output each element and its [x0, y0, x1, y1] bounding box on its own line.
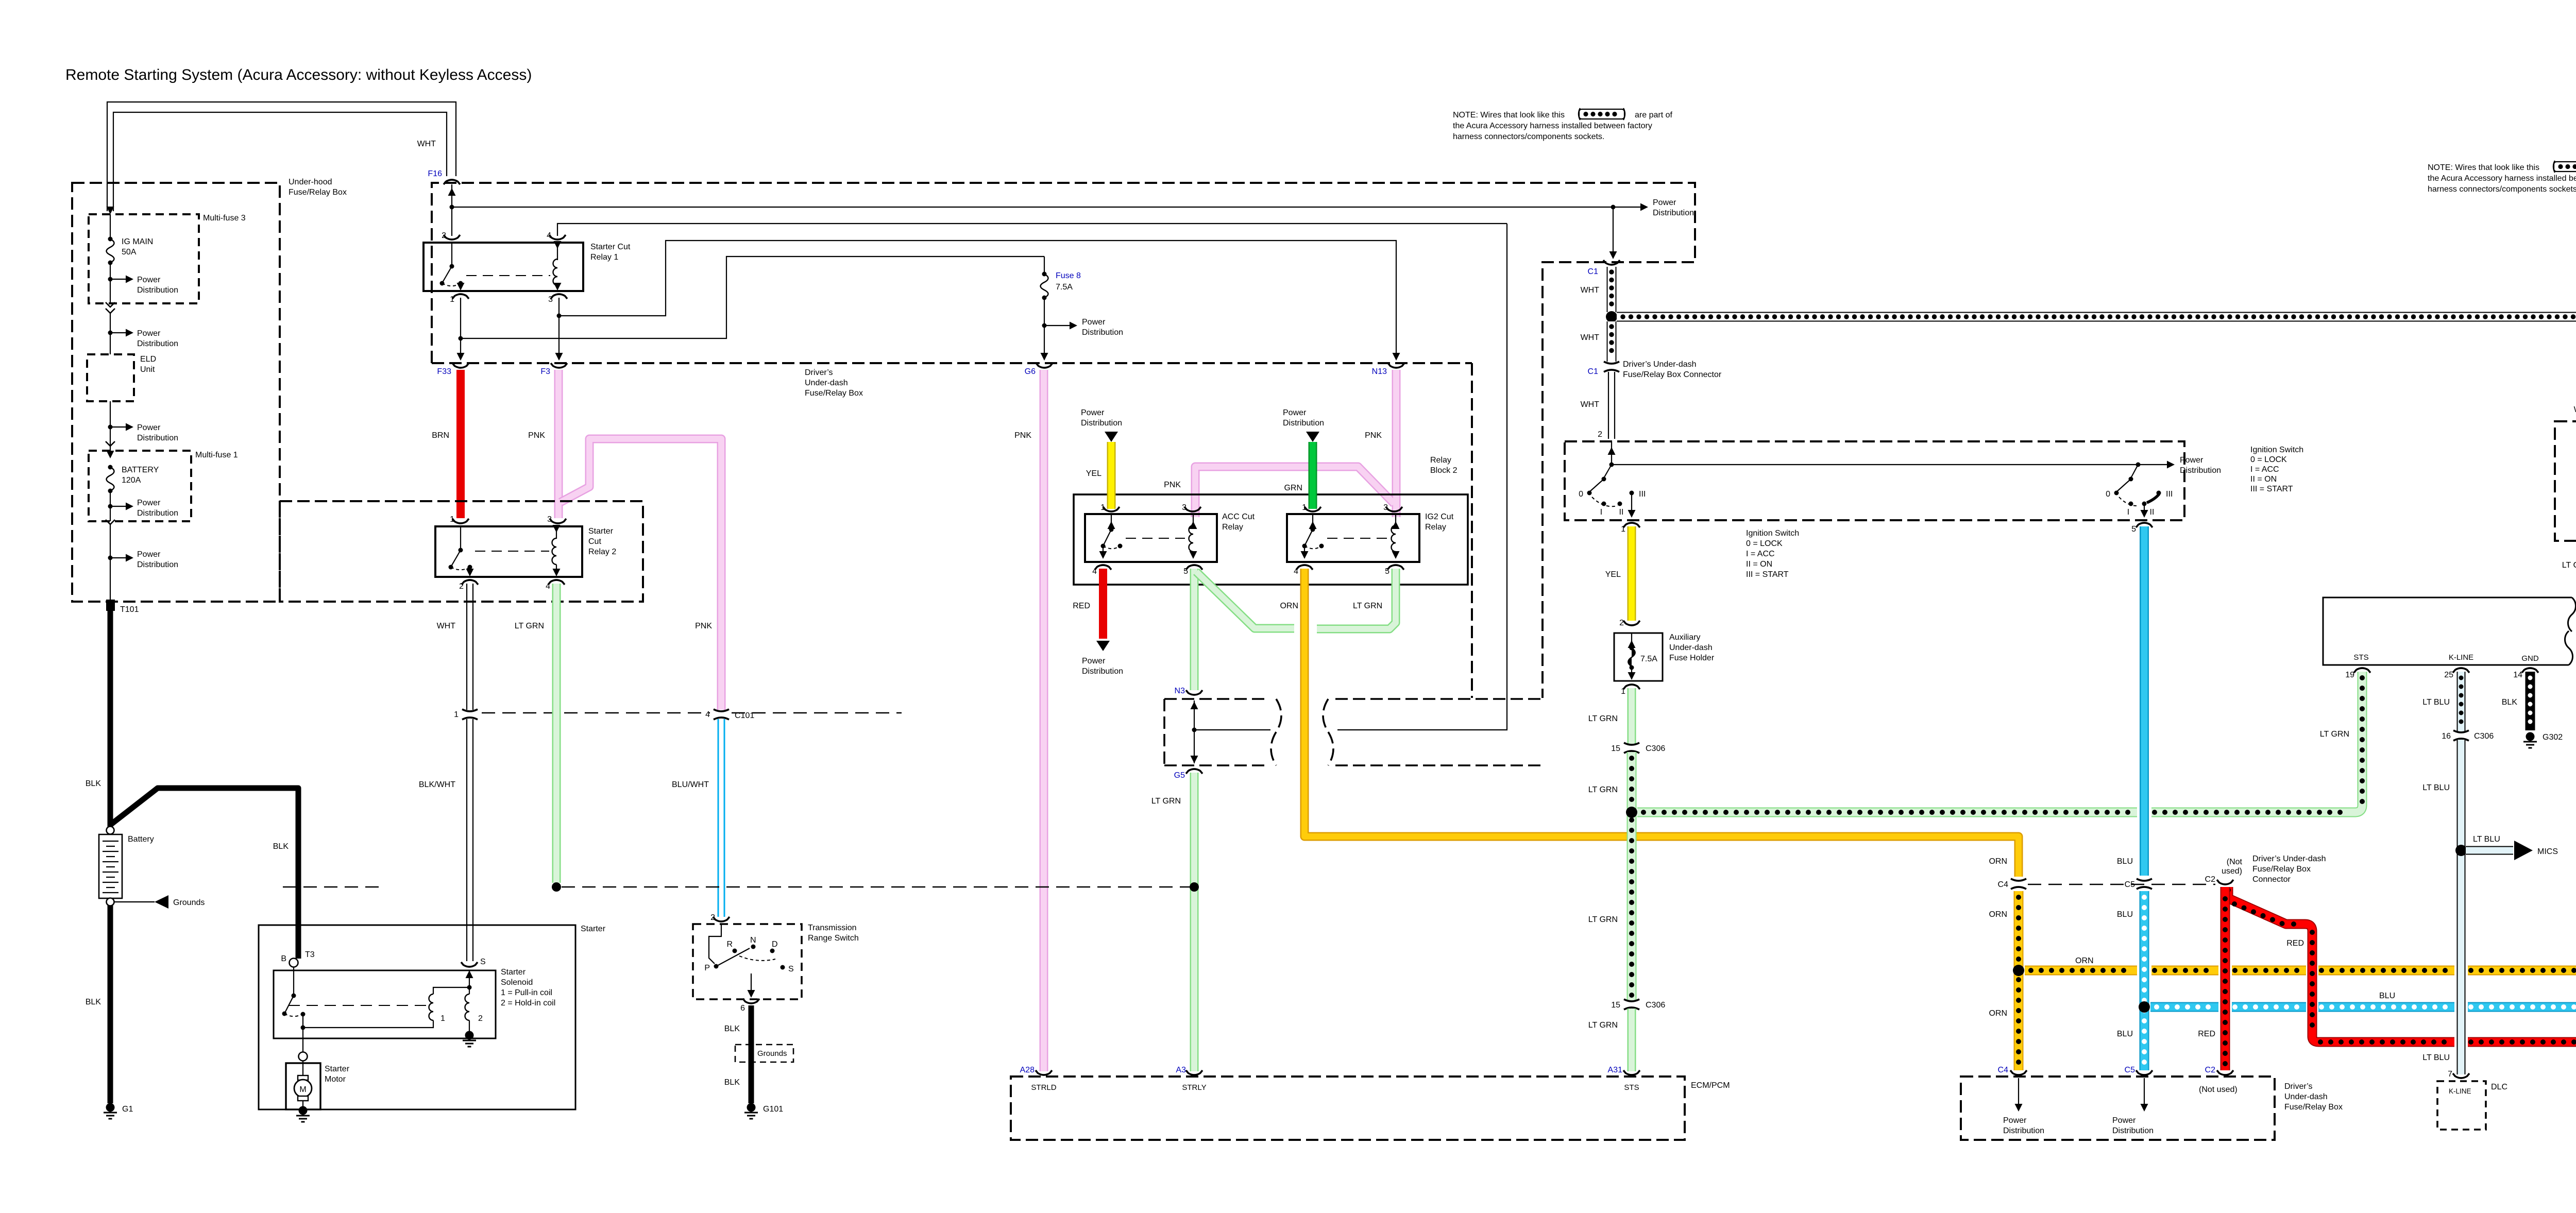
svg-text:15: 15 — [1611, 744, 1620, 753]
pin 4 — [547, 231, 566, 240]
svg-text:Power: Power — [2003, 1116, 2027, 1125]
svg-text:G6: G6 — [1025, 367, 1036, 376]
solenoid hold-in coil 2 — [465, 970, 483, 1033]
label WHT IG fuse — [2574, 405, 2576, 414]
svg-text:4: 4 — [1092, 567, 1097, 576]
wire BLU/WHT to transmission range switch — [718, 719, 724, 917]
svg-text:WHT: WHT — [437, 622, 456, 630]
wire PNK N13 to IG2 cut relay pin 3 — [1164, 370, 1396, 517]
ACC pin 3 — [1182, 503, 1201, 512]
svg-text:2: 2 — [459, 582, 464, 591]
svg-text:Starter: Starter — [581, 925, 606, 933]
connector 14 — [2513, 668, 2538, 679]
svg-text:NOTE: Wires that look like thi: NOTE: Wires that look like this — [1453, 111, 1565, 119]
svg-text:2: 2 — [710, 913, 715, 922]
svg-text:Distribution: Distribution — [2180, 466, 2221, 475]
svg-text:I = ACC: I = ACC — [2250, 465, 2279, 474]
pin 2 — [442, 231, 460, 240]
connector 1 — [454, 709, 478, 720]
svg-text:PNK: PNK — [695, 622, 712, 630]
svg-text:WHT: WHT — [417, 140, 436, 148]
svg-text:Relay 1: Relay 1 — [590, 253, 618, 262]
IG2 pin 3 — [1383, 503, 1402, 512]
svg-text:G302: G302 — [2543, 733, 2563, 742]
svg-text:GND: GND — [2521, 654, 2539, 663]
svg-text:1: 1 — [440, 1014, 445, 1023]
label BLK — [273, 842, 289, 851]
solenoid switch — [282, 967, 306, 1052]
svg-text:LT GRN: LT GRN — [1588, 915, 1618, 924]
rail pin1 to fuse 8 — [461, 257, 1044, 338]
rail pin3 to N13 — [559, 241, 1400, 361]
wire RED ACC pin4 — [1073, 569, 1110, 651]
svg-text:(Not: (Not — [2227, 858, 2243, 866]
svg-text:G1: G1 — [122, 1105, 133, 1114]
svg-text:4: 4 — [546, 582, 550, 591]
svg-text:R: R — [726, 940, 733, 949]
power distribution feed GRN — [1283, 408, 1324, 442]
svg-text:Ignition Switch: Ignition Switch — [2250, 446, 2303, 454]
wire WHT dotted C1 lower — [1581, 321, 1612, 362]
wire down to C1 — [1609, 207, 1617, 259]
svg-text:Driver’s: Driver’s — [2284, 1082, 2313, 1091]
wire WHT dotted C1 — [1581, 267, 1612, 312]
connector C306 K-LINE — [2442, 730, 2494, 741]
svg-text:BLU: BLU — [2117, 1030, 2133, 1038]
dashed right edge of driver's box (relay block 2) — [1471, 363, 1473, 698]
svg-text:N13: N13 — [1372, 367, 1387, 376]
svg-text:T101: T101 — [120, 605, 139, 614]
svg-text:STRLY: STRLY — [1182, 1083, 1206, 1092]
svg-text:2: 2 — [442, 231, 446, 240]
svg-text:S: S — [788, 965, 794, 973]
svg-text:N3: N3 — [1175, 687, 1185, 695]
ignition switch box — [1565, 441, 2184, 520]
svg-text:C5: C5 — [2125, 880, 2136, 889]
wire BLK/WHT to S — [419, 719, 473, 961]
svg-text:are part of: are part of — [1635, 111, 1672, 119]
title — [65, 66, 532, 83]
DLC box — [2437, 1081, 2507, 1130]
svg-text:WHT: WHT — [1581, 333, 1600, 342]
relay 1 coil — [553, 241, 562, 291]
svg-text:5: 5 — [1385, 567, 1389, 576]
svg-text:C1: C1 — [1588, 267, 1599, 276]
svg-text:PNK: PNK — [528, 431, 545, 440]
svg-text:C1: C1 — [1588, 367, 1599, 376]
svg-text:Auxiliary: Auxiliary — [1669, 633, 1700, 642]
svg-text:RED: RED — [2198, 1030, 2215, 1038]
wire LT GRN dotted IG fuse to IG2 relays — [2562, 511, 2576, 714]
svg-text:Relay: Relay — [1222, 523, 1243, 532]
svg-text:Motor: Motor — [325, 1075, 346, 1084]
grounds box — [735, 1045, 793, 1062]
wire LT GRN G5 to A3 — [1151, 773, 1194, 1071]
wire LT GRN ACC pin5 to N3 — [1190, 569, 1199, 690]
power distribution tap 5 — [108, 550, 179, 569]
ACC dashed link — [1126, 538, 1185, 539]
svg-text:BLK: BLK — [724, 1024, 740, 1033]
svg-text:Relay: Relay — [1430, 456, 1451, 465]
svg-text:PNK: PNK — [1365, 431, 1382, 440]
svg-text:K-LINE: K-LINE — [2449, 1087, 2471, 1095]
ECM/PCM box — [1011, 1077, 1730, 1140]
ACC pin 1 — [1100, 503, 1120, 512]
power distribution tap 1 — [108, 276, 179, 295]
svg-text:Fuse Holder: Fuse Holder — [1669, 654, 1715, 662]
wire pin3 to F3 — [555, 298, 563, 361]
svg-text:Starter: Starter — [325, 1065, 350, 1073]
svg-text:Power: Power — [137, 499, 161, 507]
svg-text:STRLD: STRLD — [1031, 1083, 1056, 1092]
svg-text:Under-hood: Under-hood — [289, 178, 332, 186]
svg-text:LT GRN: LT GRN — [515, 622, 544, 630]
svg-text:LT GRN: LT GRN — [2562, 561, 2576, 570]
svg-text:M: M — [299, 1085, 306, 1094]
wire BLK to G101 — [724, 1005, 751, 1103]
wire BLU dotted C5 — [2117, 857, 2144, 1070]
svg-text:F3: F3 — [540, 367, 550, 376]
label (Not used) top — [2222, 858, 2243, 876]
connector F3 — [540, 363, 567, 376]
relay 2 pin 1 — [450, 515, 469, 524]
svg-text:LT GRN: LT GRN — [1151, 797, 1181, 806]
auxiliary under-dash fuse holder — [1614, 633, 1715, 681]
power distribution tap fuse8 — [1042, 318, 1124, 337]
wire LT GRN branch ACC pin5 to IG2 pin5 — [1196, 569, 1396, 629]
wire WHT dotted horizontal to fuse block — [1617, 317, 2576, 435]
remote starting control unit box — [2323, 597, 2576, 665]
wire LT GRN aux to C306 — [1588, 688, 1632, 744]
svg-text:PNK: PNK — [1164, 481, 1181, 489]
svg-text:LT BLU: LT BLU — [2422, 783, 2450, 792]
power distribution tap 4 — [108, 499, 179, 518]
terminal B / T3 — [281, 950, 314, 967]
svg-text:I: I — [2127, 508, 2129, 517]
wire YEL — [1086, 442, 1111, 509]
connector C5 — [2125, 879, 2152, 889]
svg-text:Starter Cut: Starter Cut — [590, 243, 631, 251]
starter cut relay 2 dashed box — [280, 501, 643, 602]
svg-text:0 = LOCK: 0 = LOCK — [2250, 455, 2287, 464]
svg-text:Transmission: Transmission — [808, 924, 857, 932]
svg-text:the Acura Accessory harness in: the Acura Accessory harness installed be… — [2428, 174, 2576, 183]
svg-text:C4: C4 — [1998, 880, 2009, 889]
fuse 7.5A aux — [1628, 633, 1658, 680]
wire PNK G6 to A28 — [1014, 370, 1044, 1071]
wire ORN IG2 pin4 to C4 — [1280, 569, 2019, 877]
svg-text:Distribution: Distribution — [1283, 419, 1324, 428]
wire LT BLU K-LINE to DLC — [2422, 740, 2461, 1074]
wire LT BLU dotted K-LINE — [2422, 672, 2461, 731]
svg-text:4: 4 — [1294, 567, 1298, 576]
svg-text:7.5A: 7.5A — [1056, 283, 1073, 292]
svg-text:BLK: BLK — [86, 998, 101, 1006]
svg-text:Grounds: Grounds — [173, 898, 205, 907]
svg-text:Distribution: Distribution — [1082, 667, 1123, 676]
svg-text:2: 2 — [1619, 619, 1624, 627]
svg-text:N: N — [750, 936, 756, 945]
label K-LINE — [2449, 653, 2473, 662]
svg-text:1 = Pull-in coil: 1 = Pull-in coil — [501, 988, 552, 997]
svg-text:Connector: Connector — [2252, 875, 2291, 884]
solenoid pull-in coil 1 — [303, 987, 469, 1028]
svg-text:Distribution: Distribution — [2003, 1126, 2044, 1135]
svg-text:2: 2 — [1598, 430, 1602, 439]
svg-text:1: 1 — [1100, 503, 1105, 512]
IG2 pin 5 — [1385, 565, 1404, 576]
svg-text:Grounds: Grounds — [757, 1049, 787, 1058]
rail to power distribution / C1 — [452, 207, 1613, 208]
svg-text:A3: A3 — [1176, 1066, 1186, 1074]
svg-text:0: 0 — [2106, 490, 2110, 499]
svg-text:Power: Power — [137, 550, 161, 559]
wire PNK F3 — [528, 370, 558, 518]
svg-text:0 = LOCK: 0 = LOCK — [1746, 539, 1783, 548]
wire WHT relay2 to connector 1 — [437, 584, 473, 710]
connector N3 — [1175, 687, 1202, 695]
svg-text:Power: Power — [1082, 657, 1106, 665]
svg-text:BLK/WHT: BLK/WHT — [419, 780, 455, 789]
svg-text:25: 25 — [2444, 671, 2453, 679]
svg-text:7: 7 — [2448, 1070, 2452, 1079]
svg-text:III: III — [2166, 490, 2173, 499]
svg-text:0: 0 — [1579, 490, 1583, 499]
svg-text:Distribution: Distribution — [1082, 328, 1123, 337]
relay 2 dashed link — [475, 551, 549, 552]
svg-text:IG MAIN: IG MAIN — [122, 237, 153, 246]
svg-text:C101: C101 — [735, 711, 754, 720]
svg-text:1: 1 — [1302, 503, 1307, 512]
svg-text:MICS: MICS — [2537, 847, 2558, 856]
svg-text:Relay: Relay — [1425, 523, 1446, 532]
connector N13 — [1372, 363, 1404, 376]
svg-text:III: III — [1639, 490, 1646, 499]
under-hood fuse/relay box (left) — [72, 183, 280, 602]
svg-text:LT GRN: LT GRN — [1353, 602, 1382, 610]
svg-text:RED: RED — [1073, 602, 1090, 610]
svg-text:C5: C5 — [2125, 1066, 2136, 1074]
svg-text:B: B — [281, 954, 286, 963]
svg-text:BLU/WHT: BLU/WHT — [672, 780, 709, 789]
svg-text:II = ON: II = ON — [1746, 560, 1772, 569]
IG2 switch — [1301, 515, 1324, 559]
svg-text:3: 3 — [1383, 503, 1388, 512]
wire through right wavy box up to rail — [1337, 224, 1507, 730]
svg-text:Distribution: Distribution — [137, 509, 178, 518]
ACC coil — [1189, 515, 1197, 559]
svg-text:D: D — [772, 940, 778, 949]
svg-text:Under-dash: Under-dash — [805, 379, 848, 387]
relay 2 pin 4 — [546, 580, 565, 591]
svg-text:II = ON: II = ON — [2250, 475, 2277, 484]
svg-text:III = START: III = START — [1746, 570, 1789, 579]
svg-text:F16: F16 — [428, 169, 442, 178]
under-hood fuse/relay box 2 dashed outline — [432, 183, 1695, 698]
svg-text:3: 3 — [548, 295, 553, 304]
svg-text:BATTERY: BATTERY — [122, 466, 159, 474]
relay 1 switch — [440, 243, 465, 291]
svg-text:Under-dash: Under-dash — [1669, 643, 1713, 652]
svg-text:Distribution: Distribution — [2112, 1126, 2154, 1135]
wire PNK branch to C101 — [561, 439, 721, 710]
svg-text:GRN: GRN — [1284, 484, 1302, 492]
label WHT — [417, 140, 436, 148]
svg-text:2: 2 — [478, 1014, 483, 1023]
ACC switch — [1099, 515, 1123, 559]
dashed bottom edge with F33/F3/G6/N13 — [432, 362, 1472, 364]
ignition 2 pin 5 — [2131, 523, 2153, 534]
svg-text:STS: STS — [1624, 1083, 1639, 1092]
svg-text:ECM/PCM: ECM/PCM — [1691, 1081, 1730, 1090]
svg-text:1: 1 — [1621, 687, 1625, 696]
wire LT GRN dotted horizontal to STS — [1637, 808, 2350, 817]
wire LT GRN dotted STS — [2320, 672, 2362, 812]
connector C1 inline — [1588, 360, 1722, 379]
connector G5 — [1174, 769, 1202, 780]
connector 19 — [2345, 668, 2370, 679]
svg-text:III = START: III = START — [2250, 485, 2293, 493]
svg-text:Power: Power — [1283, 408, 1307, 417]
label STS — [2353, 653, 2368, 662]
power distribution C5 — [2112, 1078, 2154, 1135]
multi-fuse 1 box — [89, 451, 238, 521]
svg-text:ORN: ORN — [1989, 857, 2007, 866]
svg-text:Multi-fuse 1: Multi-fuse 1 — [195, 451, 238, 459]
label BLU/WHT — [672, 780, 709, 789]
svg-text:Unit: Unit — [140, 365, 155, 374]
ACC pin 5 — [1183, 565, 1202, 576]
svg-text:IG2 Cut: IG2 Cut — [1425, 512, 1454, 521]
svg-text:Remote Starting System (Acura: Remote Starting System (Acura Accessory:… — [65, 66, 532, 83]
connector C101 — [705, 709, 754, 720]
wire to ELD — [110, 312, 111, 354]
svg-text:I: I — [1600, 508, 1602, 517]
svg-text:Distribution: Distribution — [137, 434, 178, 442]
svg-text:Relay 2: Relay 2 — [588, 548, 616, 556]
svg-text:Battery: Battery — [128, 835, 154, 844]
svg-text:Fuse/Relay Box: Fuse/Relay Box — [2252, 865, 2311, 874]
svg-text:1: 1 — [454, 710, 459, 719]
NOTE 1 — [1453, 108, 1672, 141]
connector C5 bottom — [2125, 1066, 2153, 1075]
connector 1 below aux fuse — [1621, 685, 1640, 696]
connector T101 — [106, 600, 139, 614]
svg-text:120A: 120A — [122, 476, 141, 485]
svg-text:1: 1 — [1621, 525, 1625, 534]
svg-text:I = ACC: I = ACC — [1746, 550, 1775, 558]
dashed connector line C4 C5 C2 — [2028, 884, 2215, 885]
connector A3 — [1176, 1066, 1206, 1092]
power distribution tap 3 — [108, 423, 179, 443]
svg-text:Distribution: Distribution — [1081, 419, 1122, 428]
wire pin1 to F33 — [457, 298, 465, 361]
svg-text:Fuse/Relay Box Connector: Fuse/Relay Box Connector — [1623, 370, 1722, 379]
fuse IG MAIN 50A — [107, 207, 154, 303]
power distribution feed YEL — [1081, 408, 1122, 442]
label BLK — [86, 998, 101, 1006]
svg-text:LT BLU: LT BLU — [2422, 1053, 2450, 1062]
svg-text:Power: Power — [1653, 198, 1676, 207]
wire ELD to multi-fuse 1 — [110, 401, 111, 451]
svg-text:WHT: WHT — [1581, 400, 1600, 409]
wire pin4 rail — [557, 224, 1507, 236]
solenoid dashed link — [289, 1005, 431, 1006]
svg-text:LT GRN: LT GRN — [2320, 730, 2349, 739]
svg-text:Driver’s Under-dash: Driver’s Under-dash — [1623, 360, 1697, 369]
svg-text:Fuse/Relay Box: Fuse/Relay Box — [805, 389, 863, 398]
connector C306 — [1611, 743, 1665, 753]
svg-text:K-LINE: K-LINE — [2449, 653, 2473, 662]
wire F16 to relay pin 2 — [448, 184, 456, 236]
svg-text:A31: A31 — [1608, 1066, 1623, 1074]
svg-text:16: 16 — [2442, 732, 2451, 741]
svg-text:(Not used): (Not used) — [2199, 1085, 2238, 1094]
svg-text:15: 15 — [1611, 1001, 1620, 1010]
svg-text:ORN: ORN — [1989, 910, 2007, 919]
wire BRN F33 red — [432, 370, 461, 518]
svg-text:C2: C2 — [2205, 1066, 2216, 1074]
svg-text:P: P — [704, 964, 710, 972]
svg-text:LT BLU: LT BLU — [2473, 835, 2500, 844]
grounds arrow at battery — [114, 895, 205, 909]
svg-text:WHT: WHT — [1581, 286, 1600, 295]
svg-text:5: 5 — [1183, 567, 1188, 576]
svg-text:DLC: DLC — [2491, 1083, 2507, 1091]
relay 2 pin 2 — [459, 580, 478, 591]
power distribution RED — [1082, 657, 1123, 676]
svg-text:Power: Power — [1081, 408, 1105, 417]
svg-text:6: 6 — [740, 1004, 745, 1013]
fuse BATTERY 120A — [107, 451, 159, 521]
transmission range switch contacts — [704, 924, 793, 998]
ground starter motor — [296, 1106, 310, 1122]
svg-text:C306: C306 — [1646, 744, 1665, 753]
svg-text:F33: F33 — [437, 367, 451, 376]
svg-text:1: 1 — [450, 295, 454, 304]
connector A31 — [1608, 1066, 1640, 1092]
svg-text:T3: T3 — [305, 950, 315, 959]
svg-text:5: 5 — [2131, 525, 2136, 534]
svg-text:ORN: ORN — [1280, 602, 1298, 610]
IG2 coil — [1392, 515, 1400, 559]
svg-text:II: II — [1619, 508, 1624, 517]
dashed connector line at C101 — [482, 712, 902, 714]
fuse 8 — [1041, 257, 1081, 361]
svg-text:Power: Power — [137, 423, 161, 432]
svg-text:used): used) — [2222, 867, 2242, 876]
wire BLU dotted horizontal to IG2 relay 2 — [2150, 853, 2576, 1007]
IG2 cut relay box — [1287, 512, 1454, 562]
ignition switch 1 contacts — [1579, 465, 1646, 518]
connector C4 — [1998, 879, 2026, 889]
svg-text:BLU: BLU — [2117, 857, 2133, 866]
svg-text:BLK: BLK — [2502, 698, 2518, 707]
IG2 pin 1 — [1302, 503, 1321, 512]
svg-text:harness connectors/components: harness connectors/components sockets. — [1453, 132, 1604, 141]
connector A28 — [1020, 1066, 1057, 1092]
relay 1 dashed link — [466, 275, 550, 276]
svg-text:Distribution: Distribution — [1653, 209, 1694, 217]
svg-text:LT GRN: LT GRN — [1588, 785, 1618, 794]
solenoid coil ground — [463, 1031, 476, 1047]
junction dot LT GRN STS — [1626, 807, 1637, 818]
svg-text:NOTE: Wires that look like thi: NOTE: Wires that look like this — [2428, 163, 2539, 172]
svg-text:Power: Power — [2112, 1116, 2136, 1125]
svg-text:S: S — [480, 958, 486, 966]
svg-text:ELD: ELD — [140, 355, 156, 364]
svg-text:1: 1 — [450, 515, 454, 524]
